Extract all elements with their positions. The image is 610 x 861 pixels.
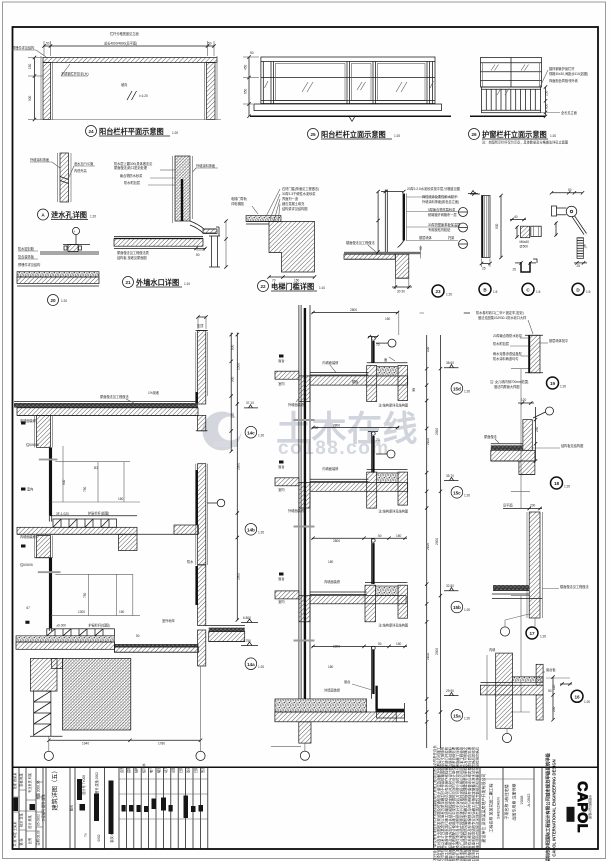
svg-text:版次 A: 版次 A (109, 832, 114, 842)
window bar ground floor (48, 558, 50, 631)
svg-text:750: 750 (83, 486, 87, 492)
watermark text (276, 410, 418, 459)
svg-text:外墙面装修: 外墙面装修 (288, 508, 305, 513)
svg-text:1:20: 1:20 (550, 134, 556, 138)
title block rotated texts (12, 763, 205, 847)
svg-text:室内: 室内 (278, 487, 284, 492)
svg-text:17: 17 (529, 631, 535, 636)
glass panels (275, 64, 345, 101)
14b caption (245, 524, 257, 536)
svg-text:22: 22 (260, 284, 266, 289)
svg-text:150: 150 (396, 642, 402, 646)
svg-text:1:20: 1:20 (394, 134, 400, 138)
svg-text:日期: 日期 (178, 767, 183, 773)
right wall of section (198, 464, 206, 565)
svg-text:签名: 签名 (200, 767, 205, 773)
elevation marks (241, 619, 258, 623)
svg-text:窗台: 窗台 (344, 679, 350, 684)
svg-text:50: 50 (208, 42, 212, 46)
svg-text:30厚挤塑聚苯板保温层: 30厚挤塑聚苯板保温层 (428, 222, 460, 227)
svg-text:审核 陈某: 审核 陈某 (19, 772, 24, 786)
svg-text:2100: 2100 (426, 438, 430, 445)
step down slab right (114, 644, 198, 647)
svg-text:2900: 2900 (435, 648, 439, 655)
detail 19: parapet cap (476, 310, 569, 389)
svg-text:图号 建施-0902: 图号 建施-0902 (94, 772, 99, 794)
svg-text:注: 女儿墙内侧700mm范围,: 注: 女儿墙内侧700mm范围, (490, 379, 529, 384)
detail 16: interior wall-slab cross (480, 647, 590, 743)
svg-text:基层墙体: 基层墙体 (419, 235, 433, 240)
svg-text:室外地坪: 室外地坪 (162, 618, 176, 623)
svg-text:35.70: 35.70 (446, 474, 454, 478)
svg-text:B3: B3 (94, 466, 98, 470)
parapet wall (198, 331, 206, 405)
caption 15b (451, 601, 463, 613)
floor unit 15b (275, 534, 470, 693)
left section ground floor (16, 333, 264, 761)
caption 19 (547, 377, 559, 389)
svg-text:29.90: 29.90 (446, 689, 454, 693)
svg-text:内墙面装修: 内墙面装修 (20, 534, 37, 539)
svg-text:外墙涂料饰面(颜色见立面): 外墙涂料饰面(颜色见立面) (422, 199, 459, 204)
svg-text:70: 70 (376, 343, 380, 347)
svg-text:总图: 总图 (171, 767, 176, 773)
svg-text:0902: 0902 (97, 834, 101, 841)
svg-text:30 30: 30 30 (397, 290, 405, 294)
svg-text:15c: 15c (453, 491, 461, 496)
svg-text:40: 40 (514, 215, 518, 219)
svg-text:21: 21 (125, 280, 131, 285)
spout profile (190, 221, 216, 229)
caption 24 (86, 126, 97, 137)
left large wall section (14, 315, 258, 567)
svg-text:托架: 托架 (448, 235, 455, 240)
level marks (444, 365, 459, 368)
slab (344, 251, 421, 253)
svg-text:详电梯图: 详电梯图 (231, 201, 244, 206)
caption A (38, 209, 49, 220)
svg-text:67: 67 (26, 606, 30, 610)
window bar above (371, 538, 373, 584)
svg-text:1500: 1500 (237, 363, 241, 370)
svg-text:M6x60: M6x60 (520, 240, 530, 244)
svg-text:15d: 15d (453, 387, 461, 392)
svg-text:见平面: 见平面 (503, 504, 513, 508)
window bar upper floor (48, 447, 50, 521)
caption 17 (526, 627, 538, 639)
ground slab left (16, 636, 114, 642)
svg-text:弹性底涂及柔性耐水腻子: 弹性底涂及柔性耐水腻子 (422, 194, 458, 199)
title block black bars (14, 779, 575, 834)
svg-text:1:20: 1:20 (258, 665, 264, 669)
dim box interior (55, 461, 130, 463)
svg-text:14c: 14c (247, 430, 255, 435)
svg-text:阳台栏杆立面示意图: 阳台栏杆立面示意图 (321, 130, 386, 139)
svg-text:50: 50 (568, 188, 572, 192)
svg-text:2800: 2800 (237, 463, 241, 470)
svg-text:防水附加层: 防水附加层 (493, 341, 509, 346)
svg-text:暖通: 暖通 (156, 766, 161, 773)
svg-text:250: 250 (535, 426, 539, 432)
svg-text:1:20: 1:20 (446, 293, 452, 297)
svg-text:15a: 15a (453, 714, 461, 719)
svg-text:外墙面装修: 外墙面装修 (324, 688, 341, 693)
svg-text:外墙涂料饰面: 外墙涂料饰面 (196, 163, 215, 168)
svg-text:50: 50 (46, 42, 50, 46)
dim box ground (55, 573, 133, 575)
parapet waterproof black bar (195, 392, 197, 408)
svg-text:70: 70 (376, 438, 380, 442)
svg-text:石材门槛(饰面见工程做法): 石材门槛(饰面见工程做法) (282, 186, 319, 191)
dims under (394, 259, 396, 289)
svg-text:屋面做法见工程做法表: 屋面做法见工程做法表 (117, 250, 150, 255)
window bar above (371, 432, 373, 473)
svg-text:护窗栏杆立面示意图: 护窗栏杆立面示意图 (482, 130, 547, 139)
svg-text:护窗栏杆(如图): 护窗栏杆(如图) (88, 511, 109, 516)
svg-text:泄水孔PVC管: 泄水孔PVC管 (74, 161, 93, 166)
svg-text:1:20: 1:20 (61, 299, 67, 303)
svg-text:窗台: 窗台 (278, 464, 284, 469)
svg-text:设计 黄某: 设计 黄某 (27, 814, 32, 828)
wall double line (384, 190, 386, 253)
svg-text:32.80: 32.80 (446, 584, 454, 588)
dense notes block (432, 745, 479, 861)
detail 22: elevator sill (231, 186, 325, 292)
svg-text:25: 25 (310, 132, 316, 137)
svg-text:细石混凝土填充: 细石混凝土填充 (282, 201, 305, 206)
ground line (470, 115, 545, 117)
svg-text:120: 120 (521, 398, 527, 402)
svg-text:电梯门导轨: 电梯门导轨 (231, 196, 248, 201)
svg-text:注：本图所示栏杆仅为示意，具体数量及分格做法详见立面图: 注：本图所示栏杆仅为示意，具体数量及分格做法详见立面图 (482, 140, 568, 145)
svg-text:1:20: 1:20 (540, 635, 546, 639)
svg-text:全长见立面: 全长见立面 (561, 110, 577, 115)
svg-text:1:20: 1:20 (258, 434, 264, 438)
caption 15d (451, 383, 463, 395)
svg-text:日期 08.06: 日期 08.06 (36, 830, 41, 845)
svg-text:900: 900 (495, 223, 499, 229)
downpipe (211, 236, 213, 267)
svg-text:1300: 1300 (78, 610, 85, 614)
top dim (381, 191, 403, 193)
caption 20 (48, 295, 59, 306)
grid dim line (49, 739, 201, 741)
svg-text:150: 150 (28, 63, 32, 69)
floor unit 15c (275, 424, 470, 514)
svg-text:室内: 室内 (27, 487, 33, 492)
svg-text:室内: 室内 (278, 599, 284, 604)
caption 23 (432, 285, 444, 297)
svg-text:建筑详图（五）: 建筑详图（五） (51, 767, 59, 810)
svg-text:出图专用章 注册师章: 出图专用章 注册师章 (511, 783, 517, 820)
svg-text:结构板 找坡见屋面图: 结构板 找坡见屋面图 (117, 255, 147, 260)
svg-text:泄水孔详图: 泄水孔详图 (51, 211, 87, 220)
bottom line (38, 119, 221, 121)
svg-text:150: 150 (396, 534, 402, 538)
window bar above (371, 336, 373, 363)
svg-text:签名: 签名 (185, 767, 190, 773)
svg-text:180: 180 (328, 665, 334, 669)
top handrail (261, 57, 435, 62)
svg-text:2800: 2800 (333, 424, 340, 428)
svg-text:不锈钢栏杆扶手(大): 不锈钢栏杆扶手(大) (61, 71, 89, 76)
svg-text:120: 120 (552, 684, 556, 690)
svg-text:1:20: 1:20 (172, 131, 178, 135)
svg-text:防水卷材收口(二甲ド固定牢,密封): 防水卷材收口(二甲ド固定牢,密封) (476, 310, 524, 315)
right wall w/ black bar (198, 565, 206, 626)
floor unit 15d (275, 335, 470, 408)
svg-text:6.750: 6.750 (243, 639, 251, 643)
foundation mass (62, 658, 130, 730)
svg-text:内墙面装修: 内墙面装修 (322, 466, 339, 471)
slope mark (127, 91, 132, 100)
svg-text:100: 100 (426, 346, 430, 352)
svg-text:900: 900 (62, 479, 66, 485)
svg-text:建设单位 深圳某某房地产开发有限公司: 建设单位 深圳某某房地产开发有限公司 (480, 773, 486, 842)
svg-text:防水: 防水 (187, 559, 194, 564)
svg-text:校对 李某: 校对 李某 (19, 812, 24, 826)
svg-text:25: 25 (513, 268, 517, 272)
svg-text:16: 16 (574, 695, 580, 700)
detail 21: wall spout (114, 156, 228, 288)
svg-text:1%找坡: 1%找坡 (148, 390, 160, 395)
posts (260, 62, 262, 105)
svg-text:1:20: 1:20 (258, 531, 264, 535)
svg-text:楼面做法见工程做法: 楼面做法见工程做法 (560, 584, 589, 589)
svg-text:注:结构梁详见结构图: 注:结构梁详见结构图 (379, 509, 409, 514)
exterior slab right (209, 628, 245, 632)
svg-text:150: 150 (118, 497, 124, 501)
svg-text:给排水: 给排水 (141, 763, 146, 773)
title block (12, 745, 598, 861)
svg-text:做法同屋面大样图: 做法同屋面大样图 (494, 384, 520, 389)
detail C: post sections (510, 215, 541, 295)
svg-text:外墙水口详图: 外墙水口详图 (135, 278, 179, 287)
svg-text:150: 150 (385, 317, 391, 321)
svg-text:屋面做法)收口密封处理: 屋面做法)收口密封处理 (114, 165, 148, 170)
svg-text:1:20: 1:20 (560, 385, 566, 389)
svg-text:工程名称 某某花园二期工程: 工程名称 某某花园二期工程 (488, 783, 494, 832)
project name cells (480, 753, 557, 861)
roof slab left (114, 236, 203, 238)
floor slab (17, 272, 99, 278)
drawing 25: balcony railing elevation (243, 51, 451, 140)
caption 15a (451, 710, 463, 722)
svg-text:窗台板: 窗台板 (546, 667, 556, 672)
caption B (479, 283, 491, 295)
svg-text:界面剂一道: 界面剂一道 (282, 196, 299, 201)
svg-text:6.800: 6.800 (243, 616, 251, 620)
detail A: weep hole (30, 153, 96, 220)
bottom rail (261, 100, 435, 102)
svg-text:1:20: 1:20 (584, 700, 590, 704)
svg-text:50: 50 (419, 246, 423, 250)
svg-text:总长4600/4800(见平面): 总长4600/4800(见平面) (104, 41, 137, 46)
svg-text:23: 23 (435, 289, 441, 294)
svg-text:基层墙体找平: 基层墙体找平 (549, 338, 569, 343)
svg-text:注:结构梁详见结构图: 注:结构梁详见结构图 (379, 623, 409, 628)
svg-text:图名: 图名 (69, 805, 74, 811)
svg-text:250: 250 (552, 706, 556, 712)
detail 23: wall finish section (344, 186, 478, 297)
svg-text:900: 900 (231, 376, 235, 382)
hatched mass (269, 222, 315, 273)
svg-text:防水密封胶: 防水密封胶 (18, 246, 35, 251)
svg-text:2800: 2800 (237, 573, 241, 580)
svg-text:防水涂料两道均匀: 防水涂料两道均匀 (493, 356, 519, 361)
svg-text:50: 50 (378, 642, 382, 646)
svg-text:1:20: 1:20 (464, 494, 470, 498)
svg-text:1:10: 1:10 (184, 282, 190, 286)
14a caption (245, 658, 257, 670)
svg-text:建筑: 建筑 (126, 766, 131, 773)
svg-text:楼板: 楼板 (352, 379, 359, 384)
svg-text:1:5: 1:5 (536, 290, 541, 294)
svg-text:窗台: 窗台 (278, 358, 284, 363)
svg-text:+: + (74, 230, 76, 234)
left wall under roof (37, 415, 51, 447)
caption 21 (123, 277, 134, 288)
svg-text:外墙涂料饰面: 外墙涂料饰面 (30, 157, 49, 162)
detail 17: wall-slab junction (492, 504, 589, 640)
caption 18 (551, 477, 563, 489)
svg-text:会签: 会签 (119, 766, 124, 773)
svg-text:±0.000: ±0.000 (56, 624, 66, 628)
svg-text:专业负责 刘某: 专业负责 刘某 (27, 772, 32, 793)
svg-text:20厚1:2.5水泥砂浆找平层,分格缝见图: 20厚1:2.5水泥砂浆找平层,分格缝见图 (407, 186, 460, 191)
svg-text:预埋件详见结构: 预埋件详见结构 (18, 262, 40, 267)
svg-text:A-0902: A-0902 (526, 793, 531, 807)
long dim chain (236, 333, 238, 620)
left dim chain (34, 58, 36, 120)
caption D (572, 283, 584, 295)
svg-text:耐碱玻纤网格布一层: 耐碱玻纤网格布一层 (428, 212, 457, 217)
leader rail handrail (61, 64, 70, 76)
rail top bar (plan) (43, 58, 217, 63)
wall stub below (299, 722, 311, 743)
svg-text:屋面做法见工程做法: 屋面做法见工程做法 (100, 394, 129, 399)
svg-text:50: 50 (378, 534, 382, 538)
svg-text:深圳市华阳国际工程设计有限公司城市规划甲级建筑甲级: 深圳市华阳国际工程设计有限公司城市规划甲级建筑甲级 (545, 753, 552, 861)
svg-text:19: 19 (550, 381, 556, 386)
svg-text:审定 王某某: 审定 王某某 (12, 821, 17, 839)
mid rail (261, 77, 435, 79)
wall break marks (294, 419, 315, 421)
svg-text:阳台栏杆平面示意图: 阳台栏杆平面示意图 (99, 127, 164, 136)
svg-text:2900: 2900 (435, 428, 439, 435)
svg-text:150: 150 (313, 426, 319, 430)
svg-text:饰面颜色同相邻外墙: 饰面颜色同相邻外墙 (549, 78, 578, 83)
svg-text:2800: 2800 (333, 645, 340, 649)
svg-text:37.10: 37.10 (246, 401, 254, 405)
svg-text:750: 750 (83, 592, 87, 598)
svg-text:共 张: 共 张 (12, 839, 17, 847)
finish black bar (403, 194, 405, 241)
roof finish dark band (14, 403, 198, 408)
svg-text:25: 25 (482, 267, 486, 271)
svg-text:规格30x30,间距@110(如图): 规格30x30,间距@110(如图) (549, 71, 588, 76)
svg-text:SHENZHEN: SHENZHEN (496, 797, 501, 819)
svg-text:200: 200 (530, 504, 536, 508)
svg-text:制图 2008.06: 制图 2008.06 (36, 780, 41, 799)
svg-text:预埋件详见结构: 预埋件详见结构 (12, 45, 34, 50)
svg-text:24: 24 (88, 129, 94, 134)
drawing 24: balcony railing plan (12, 31, 221, 137)
svg-text:内墙面装修: 内墙面装修 (322, 360, 339, 365)
svg-text:15b: 15b (453, 605, 461, 610)
svg-text:面: 面 (384, 358, 387, 362)
caption 25 (308, 129, 319, 140)
caption 26 (469, 129, 480, 140)
svg-text:动力: 动力 (163, 767, 168, 773)
svg-text:18: 18 (554, 481, 560, 486)
grid bubbles (48, 736, 50, 751)
swing arm (575, 216, 587, 234)
svg-text:150: 150 (119, 610, 125, 614)
svg-text:2800: 2800 (333, 539, 340, 543)
balcony slab (50, 515, 137, 517)
svg-text:1:10: 1:10 (319, 286, 325, 290)
left wall below (37, 536, 51, 558)
svg-text:楼面做法见工程做法: 楼面做法见工程做法 (346, 240, 375, 245)
insulation black stripe (304, 308, 306, 712)
detail 20: fixture on slab (17, 227, 99, 305)
marker circle (217, 499, 225, 507)
svg-text:结构板见结构图: 结构板见结构图 (561, 443, 583, 448)
left dim chain (248, 57, 250, 116)
svg-text:i=1:20: i=1:20 (139, 94, 148, 98)
svg-text:镀锌钢管护窗栏杆: 镀锌钢管护窗栏杆 (549, 66, 575, 71)
svg-text:650: 650 (244, 88, 248, 94)
svg-text:外墙面装修: 外墙面装修 (288, 402, 305, 407)
svg-text:05-0902: 05-0902 (37, 814, 41, 826)
svg-text:第 张: 第 张 (19, 838, 24, 846)
svg-text:坡向: 坡向 (121, 82, 127, 87)
svg-text:住6X6X6: 住6X6X6 (20, 562, 33, 567)
svg-text:1780: 1780 (158, 742, 165, 746)
parapet dim chain (230, 333, 232, 452)
svg-text:2100: 2100 (426, 653, 430, 660)
waterproof bend (375, 686, 377, 710)
svg-text:120: 120 (231, 412, 235, 418)
svg-text:批准 张某某: 批准 张某某 (12, 772, 17, 790)
base curb (254, 104, 442, 111)
svg-text:20: 20 (50, 298, 56, 303)
svg-text:窗台: 窗台 (278, 576, 284, 581)
svg-text:子项名称 3栋住宅楼: 子项名称 3栋住宅楼 (503, 784, 509, 819)
svg-text:内墙: 内墙 (489, 647, 496, 652)
detail B: flat bar baluster (470, 192, 503, 295)
guard railing (482, 87, 541, 113)
svg-text:内低外高: 内低外高 (74, 168, 87, 173)
stair zigzag (34, 691, 51, 736)
level mark top right (468, 193, 478, 195)
hinge circle (566, 206, 577, 217)
svg-text:刷水泥基渗透结晶型: 刷水泥基渗透结晶型 (493, 351, 522, 356)
caption C (522, 283, 534, 295)
caption 16 (571, 690, 583, 702)
middle strip: exterior wall section (294, 305, 471, 712)
svg-text:180: 180 (328, 560, 334, 564)
svg-text:1:20: 1:20 (464, 390, 470, 394)
svg-text:屋面做法: 屋面做法 (484, 434, 497, 439)
svg-text:50: 50 (136, 634, 140, 638)
svg-text:节能保温工程施工须符合国家及深圳市现行建筑节能规范标准要求并: 节能保温工程施工须符合国家及深圳市现行建筑节能规范标准要求并经检测合格后 (474, 746, 479, 861)
svg-text:3F-1.020: 3F-1.020 (56, 512, 69, 516)
svg-text:1:20: 1:20 (464, 717, 470, 721)
svg-text:复合装饰板: 复合装饰板 (18, 254, 35, 259)
svg-text:2100: 2100 (426, 543, 430, 550)
